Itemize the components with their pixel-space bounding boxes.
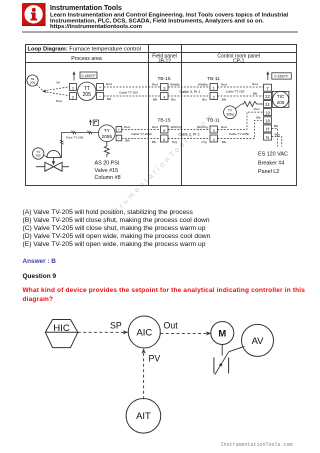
svg-text:https://instrumentationtools.c: https://instrumentationtools.com [50, 24, 142, 30]
svg-text:Org: Org [201, 140, 206, 144]
arrowhead into M [206, 331, 212, 335]
svg-text:Red: Red [124, 125, 130, 129]
svg-text:22: 22 [265, 94, 270, 99]
air supply zigzag below TY-205b [104, 142, 109, 157]
wire AIT to AIC (PV) [143, 352, 145, 399]
svg-text:TB-15: TB-15 [157, 118, 170, 124]
valve actuator diaphragm [47, 150, 62, 157]
svg-text:Breaker #4: Breaker #4 [258, 160, 284, 166]
thermocouple TE-205 [27, 75, 38, 86]
wire N to ES [272, 137, 282, 147]
svg-text:WhtBlu: WhtBlu [198, 83, 208, 87]
wire TB15-6 to TB11-4 [168, 138, 210, 140]
svg-text:Column #8: Column #8 [95, 175, 121, 181]
positioner tag TV-205 [33, 148, 44, 159]
svg-text:−: − [118, 137, 121, 141]
svg-text:Red: Red [254, 107, 260, 111]
wire TB11-3 to term 19 [218, 112, 264, 129]
damper duct walls [214, 358, 229, 374]
svg-text:−: − [99, 94, 102, 99]
terminal 1 [210, 84, 218, 91]
loop diagram svg [0, 40, 320, 190]
hand controller HIC [45, 320, 78, 348]
svg-text:Instrumentation Tools: Instrumentation Tools [50, 5, 122, 12]
svg-text:M: M [218, 328, 226, 339]
svg-text:HIC: HIC [53, 323, 70, 334]
range arrow left [73, 74, 75, 81]
svg-text:205b: 205b [101, 134, 112, 140]
svg-text:Red: Red [56, 99, 62, 103]
svg-text:Blu: Blu [171, 98, 176, 102]
controller terminal 21 [264, 101, 272, 108]
wire TE to TT (dashed pair) [37, 85, 70, 96]
svg-text:N: N [266, 135, 269, 140]
damper blade [215, 352, 229, 375]
svg-text:Cable TT-205: Cable TT-205 [226, 89, 245, 93]
svg-text:Panel L2: Panel L2 [258, 169, 279, 175]
transmitter TT-205 [78, 82, 96, 100]
wire HIC to AIC (SP) [78, 331, 125, 333]
svg-text:Tube TY-205: Tube TY-205 [66, 136, 84, 140]
svg-text:3: 3 [163, 85, 166, 90]
junction arrowhead [42, 90, 46, 93]
svg-text:Cable 3, Pr 1: Cable 3, Pr 1 [180, 90, 201, 94]
arrowhead into AIC [123, 330, 129, 334]
svg-text:Wht: Wht [274, 132, 280, 136]
svg-text:205: 205 [36, 154, 41, 158]
function TY-205a [224, 106, 237, 119]
link TV tag to actuator [44, 155, 48, 157]
pneumatic tube TY-205b to valve [60, 131, 99, 158]
linkage to AV [229, 346, 245, 351]
wire TT- to TB15-4 [104, 95, 161, 97]
svg-text:ES 120 VAC: ES 120 VAC [258, 152, 288, 158]
svg-text:0-1500°F: 0-1500°F [82, 74, 96, 78]
svg-text:Blk: Blk [125, 139, 130, 143]
svg-text:WhtOrg: WhtOrg [197, 125, 208, 129]
svg-text:2: 2 [213, 94, 216, 99]
svg-text:Red: Red [152, 83, 158, 87]
wire TB11-4 to term 18 [218, 120, 264, 138]
svg-text:TY: TY [104, 128, 111, 134]
terminal 1 [70, 84, 77, 91]
svg-text:Red: Red [152, 125, 158, 129]
svg-text:TB-11: TB-11 [207, 76, 220, 82]
svg-text:WhtOrg: WhtOrg [171, 125, 182, 129]
damper pivot [219, 363, 222, 366]
svg-text:205a: 205a [226, 113, 234, 117]
svg-text:21: 21 [265, 102, 270, 107]
header logo [0, 0, 320, 34]
arrowhead into AIC bottom [142, 348, 146, 354]
terminal 4 [161, 93, 169, 100]
svg-text:Yel: Yel [56, 80, 60, 84]
range box 0-1500F left [80, 72, 97, 78]
svg-text:Blu: Blu [202, 98, 207, 102]
wire H to ES [272, 129, 278, 147]
footer [221, 442, 293, 448]
svg-text:Blk: Blk [222, 98, 227, 102]
svg-text:JB-12: JB-12 [158, 58, 171, 64]
terminal 5 [161, 126, 169, 133]
converter TY-205b [98, 125, 115, 142]
wire TY205b+ to TB15-5 [122, 129, 161, 131]
svg-text:Blk: Blk [253, 91, 258, 95]
options text [23, 209, 211, 249]
transmitter AIT [126, 399, 161, 434]
watermark [100, 99, 228, 227]
wire TY205b- to TB15-6 [122, 138, 161, 140]
wire TB11-1 to term 7 [218, 86, 264, 88]
svg-text:Red: Red [106, 82, 112, 86]
terminal 4 (TB-11 lower) [210, 135, 218, 142]
terminal + [97, 84, 104, 91]
terminal 2 [70, 93, 77, 100]
wire TB15-3 to TB11-1 [168, 86, 210, 88]
terminal - [97, 93, 104, 100]
valve body TV-205 [36, 162, 69, 171]
svg-text:TB-11: TB-11 [207, 118, 220, 124]
svg-text:SP: SP [110, 321, 122, 331]
svg-text:205: 205 [277, 100, 285, 105]
svg-text:3: 3 [213, 128, 216, 133]
svg-text:Cable 3, Pr 2: Cable 3, Pr 2 [179, 132, 200, 136]
svg-text:Red: Red [221, 125, 227, 129]
svg-text:TIC: TIC [277, 94, 285, 99]
range box 0-1500F right [272, 73, 292, 79]
svg-text:TB-15: TB-15 [157, 76, 170, 82]
wire TB11-2 to term 22 [218, 95, 264, 97]
svg-text:Blk: Blk [222, 140, 227, 144]
svg-text:Blk: Blk [153, 98, 158, 102]
terminal 2 [210, 93, 218, 100]
controller TIC-205 shared display [272, 91, 289, 107]
svg-text:4: 4 [163, 94, 166, 99]
controller AIC [128, 316, 160, 348]
svg-text:7: 7 [266, 86, 269, 91]
svg-text:CP-1: CP-1 [233, 58, 245, 64]
svg-text:Out: Out [164, 321, 179, 331]
terminal 3 [161, 84, 169, 91]
svg-text:Blk: Blk [107, 97, 112, 101]
valve AV [242, 324, 274, 356]
wire TT+ to TB15-3 [104, 86, 161, 88]
svg-text:205: 205 [30, 81, 35, 85]
svg-text:1: 1 [213, 85, 216, 90]
svg-text:AIC: AIC [136, 326, 152, 337]
terminal + (TY-205b) [116, 126, 122, 132]
svg-text:Red: Red [252, 82, 258, 86]
svg-text:H: H [266, 127, 269, 132]
svg-text:PV: PV [149, 353, 161, 363]
svg-text:205: 205 [83, 92, 92, 98]
svg-text:2: 2 [72, 94, 75, 99]
range arrow right [267, 74, 269, 81]
svg-text:Blk: Blk [152, 140, 157, 144]
svg-text:WhtBlu: WhtBlu [170, 83, 180, 87]
bottom diagram svg [0, 310, 320, 440]
svg-text:Process area: Process area [71, 56, 102, 62]
controller terminal 22 [264, 92, 272, 99]
svg-text:6: 6 [163, 137, 166, 142]
svg-text:Cable TY-205b: Cable TY-205b [131, 132, 152, 136]
arrow up at TY-205b [90, 121, 92, 125]
wire TB15-5 to TB11-3 [168, 129, 210, 131]
svg-text:Blk: Blk [274, 124, 279, 128]
svg-text:1: 1 [72, 85, 75, 90]
svg-text:AIT: AIT [136, 410, 151, 421]
terminal - (TY-205b) [116, 135, 122, 141]
controller terminal H [264, 125, 272, 132]
I/P symbol box [93, 120, 99, 125]
svg-text:Org: Org [172, 140, 177, 144]
svg-text:Red: Red [221, 83, 227, 87]
svg-text:Valve #15: Valve #15 [95, 168, 119, 174]
resistor TY-205a zigzag [242, 101, 264, 106]
wire TB15-4 to TB11-2 [168, 95, 210, 97]
controller terminal N [264, 133, 272, 140]
svg-text:4: 4 [213, 137, 216, 142]
svg-text:+: + [118, 128, 121, 132]
terminal 3 (TB-11 lower) [210, 126, 218, 133]
svg-text:Blk: Blk [256, 115, 261, 119]
svg-text:Cable TT-205: Cable TT-205 [119, 90, 138, 94]
valve stem arrow [53, 158, 55, 162]
link M to damper [221, 344, 223, 356]
svg-text:AV: AV [252, 335, 265, 346]
svg-text:+: + [99, 85, 102, 90]
wire AIC to M (Out) [160, 332, 207, 334]
svg-text:AS 20 PSI: AS 20 PSI [95, 161, 120, 167]
svg-text:Loop Diagram: Furnace temperat: Loop Diagram: Furnace temperature contro… [28, 47, 141, 53]
motor M [211, 322, 234, 345]
controller terminal 7 [264, 84, 272, 91]
controller terminal 19 [264, 109, 272, 116]
controller terminal 18 [264, 117, 272, 124]
svg-text:19: 19 [265, 110, 270, 115]
svg-text:Cable TY-205b: Cable TY-205b [229, 132, 250, 136]
svg-text:18: 18 [265, 119, 270, 124]
svg-text:0-1500°F: 0-1500°F [275, 75, 289, 79]
svg-text:5: 5 [163, 128, 166, 133]
table frame [26, 45, 297, 186]
terminal 6 [161, 135, 169, 142]
link TY-205a circle to resistor [235, 104, 241, 109]
